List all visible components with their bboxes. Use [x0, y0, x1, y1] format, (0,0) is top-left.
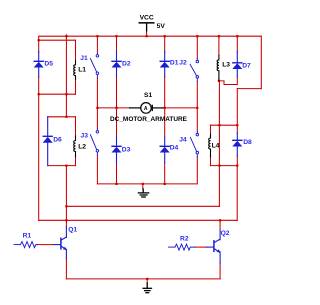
inductor L3 [217, 55, 219, 80]
inductor L1 [74, 61, 76, 79]
resistor R2 [169, 244, 196, 250]
svg-text:L1: L1 [78, 67, 86, 74]
wire D5 branch vertical [38, 36, 40, 52]
wire D1 bottom to D4 top [164, 77, 166, 138]
wire D5/L1 bottom [39, 93, 76, 95]
wire D1 branch top [164, 36, 166, 52]
diode D2 [112, 52, 122, 77]
wire VCC stem red [146, 31, 148, 37]
VCC symbol [139, 22, 155, 31]
wire motor rail left [97, 107, 129, 109]
wire D3 bottom lead [116, 163, 118, 184]
svg-text:S1: S1 [144, 92, 152, 99]
wire L2 box to Q1 collector vertical [65, 166, 67, 227]
wire node A horizontal [66, 205, 219, 207]
resistor R1 [14, 242, 37, 248]
svg-text:VCC: VCC [140, 15, 154, 22]
wire J1 top lead [96, 36, 98, 53]
svg-text:J1: J1 [80, 55, 88, 62]
wire node B horizontal [39, 219, 238, 221]
wire D8 top link [237, 88, 261, 90]
wire Q2 emitter down [219, 264, 221, 279]
wire mid ground stem red [142, 184, 144, 189]
svg-text:A: A [144, 106, 148, 112]
transistor Q2 [206, 231, 220, 264]
wire L3 junction down to node A [218, 81, 221, 206]
wire L2 branch vertical bottom [75, 157, 77, 166]
svg-text:D3: D3 [122, 146, 131, 153]
wire D8 bottom to node B [236, 156, 238, 166]
wire R2 to Q2 base [195, 246, 207, 248]
diode D8 [232, 133, 242, 156]
wire D2 branch top [116, 36, 118, 52]
diode D7 [232, 52, 242, 77]
wire rail to L2 box vertical [65, 35, 67, 117]
svg-text:DC_MOTOR_ARMATURE: DC_MOTOR_ARMATURE [110, 117, 187, 123]
wire emitter bottom rail [66, 278, 220, 280]
svg-text:J2: J2 [179, 59, 187, 66]
wire J4 bottom lead [196, 157, 198, 184]
wire Q2 collector up to node B [219, 220, 221, 231]
wire D2 bottom to D3 top [116, 77, 118, 138]
wire J1 bottom to J3 top [96, 78, 98, 129]
wire outer right vertical [260, 36, 262, 88]
svg-text:D7: D7 [242, 63, 251, 70]
wire top rail VCC [39, 35, 261, 37]
diode D5 [34, 52, 44, 77]
wire L4/D8 bottom link [211, 165, 238, 167]
svg-text:5V: 5V [157, 23, 166, 30]
wire R1 to Q1 base [37, 244, 54, 246]
svg-text:R2: R2 [180, 236, 189, 243]
svg-text:D4: D4 [170, 145, 179, 152]
wire D8 branch vertical [236, 89, 238, 134]
switch J2 [190, 58, 198, 81]
wire L1 branch vertical top [75, 40, 77, 60]
switch J3 [90, 129, 98, 156]
wire L3 top lead [218, 36, 220, 55]
wire J2 bottom to J4 top [196, 81, 198, 131]
wire D6/L2 box bottom [48, 165, 76, 167]
wire J2 top lead [196, 36, 198, 58]
svg-text:D6: D6 [53, 137, 62, 144]
wire Q1 emitter down [65, 258, 67, 279]
svg-text:J4: J4 [179, 137, 187, 144]
diode D6 [43, 117, 53, 166]
svg-text:D1: D1 [170, 59, 179, 66]
wire D7 to L3 jog [219, 77, 237, 85]
transistor Q1 [53, 227, 67, 258]
svg-text:J3: J3 [81, 133, 89, 140]
bottom ground [143, 283, 151, 293]
wire bottom ground stem red [146, 279, 148, 283]
inductor L4 [210, 125, 212, 134]
wire D7 branch top [236, 36, 238, 52]
wire J3 bottom lead [96, 155, 98, 184]
svg-text:L2: L2 [78, 143, 86, 150]
svg-text:L4: L4 [212, 143, 220, 150]
svg-text:D2: D2 [122, 60, 131, 67]
wire L1 top feed [39, 39, 76, 41]
switch J1 [90, 53, 98, 78]
svg-text:R1: R1 [23, 232, 32, 239]
diode D4 [160, 137, 170, 163]
wire D4 bottom lead [164, 163, 166, 184]
wire L2 branch vertical top [75, 117, 77, 136]
diode D3 [112, 137, 122, 163]
wire motor rail right [163, 107, 198, 109]
motor S1 DC_MOTOR_ARMATURE [130, 103, 163, 114]
mid ground [138, 189, 148, 197]
wire D6/L2 box top [48, 116, 76, 118]
svg-text:D5: D5 [44, 60, 53, 67]
svg-text:D8: D8 [243, 139, 252, 146]
wire L1 branch vertical bottom [75, 80, 77, 95]
diode D1 [160, 52, 170, 77]
inductor L2 [74, 136, 76, 157]
switch J4 [190, 132, 198, 158]
wire L4 top link [211, 124, 238, 126]
wire bridge bottom rail [97, 183, 196, 185]
svg-text:L3: L3 [222, 61, 230, 68]
svg-text:Q2: Q2 [221, 230, 230, 237]
svg-text:Q1: Q1 [68, 227, 77, 234]
